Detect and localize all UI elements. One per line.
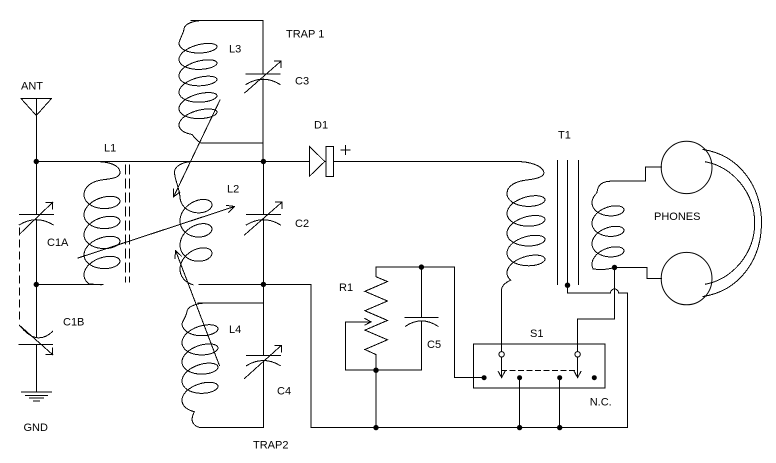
switch S1 contact 3	[557, 375, 562, 380]
wire bottom rail	[311, 427, 628, 429]
label C1B	[63, 317, 84, 329]
capacitor C1B	[19, 325, 53, 354]
node rail below R1	[373, 425, 378, 430]
transformer T1 secondary	[592, 181, 624, 269]
inductor L1	[84, 162, 120, 285]
node C1 junction	[34, 282, 39, 287]
switch S1 contact 1	[482, 375, 487, 380]
node L2/C2 bottom junction	[261, 282, 266, 287]
node rail below contact2	[517, 425, 522, 430]
wire junction to C1B arc	[35, 285, 37, 338]
svg-text:C3: C3	[295, 76, 309, 88]
svg-text:PHONES: PHONES	[654, 211, 700, 223]
wire secondary junction to S1	[578, 268, 615, 352]
node R1 bottom junction	[373, 368, 378, 373]
wire D1 to T1	[334, 161, 520, 163]
L1 adjustable core	[126, 165, 130, 282]
svg-text:C1A: C1A	[47, 237, 69, 249]
wire R1/C5 top	[376, 266, 454, 268]
wire secondary bottom to phones	[615, 268, 662, 279]
wire C1A to junction	[35, 220, 37, 285]
label C2	[295, 218, 309, 230]
L4 slug-tuning arrow	[175, 251, 220, 366]
svg-text:TRAP 1: TRAP 1	[286, 29, 324, 41]
wire TRAP1 right side lower	[262, 79, 264, 143]
node R1/C5 top junction	[419, 264, 424, 269]
svg-text:L1: L1	[104, 143, 116, 155]
wire R1 bottom to rail	[375, 370, 377, 427]
svg-text:C5: C5	[427, 339, 441, 351]
switch S1 right pole	[575, 352, 580, 357]
wire TRAP2 right side lower	[262, 361, 264, 428]
svg-text:C2: C2	[295, 218, 309, 230]
inductor L2	[175, 162, 213, 285]
capacitor C3	[245, 61, 281, 93]
svg-text:TRAP2: TRAP2	[253, 440, 288, 452]
phones headband	[703, 150, 762, 297]
node secondary bottom junction	[612, 265, 617, 270]
wire S1 contact2 to rail	[519, 378, 521, 428]
svg-text:N.C.: N.C.	[590, 397, 612, 409]
svg-text:GND: GND	[24, 422, 49, 434]
R1 wiper arm	[346, 319, 422, 371]
wire C2 top lead	[262, 162, 264, 215]
switch S1 left pole	[499, 352, 504, 357]
L2 coupling arrow	[78, 205, 235, 258]
wire TRAP2 box bottom	[200, 427, 263, 429]
diode D1 triangle	[310, 146, 325, 176]
svg-text:S1: S1	[530, 328, 543, 340]
phones top earpiece	[661, 141, 712, 193]
svg-text:L4: L4	[229, 324, 241, 336]
wire secondary top to phones	[610, 167, 662, 181]
label D1 plus	[341, 146, 350, 155]
label T1	[558, 130, 571, 142]
svg-text:C4: C4	[277, 386, 291, 398]
wire TRAP2 right side upper	[262, 303, 264, 356]
capacitor C2	[245, 202, 282, 235]
label L4	[229, 324, 241, 336]
node L2/C2 top junction	[261, 159, 266, 164]
L3 slug-tuning arrow	[173, 100, 220, 197]
gang dashed link C1A-C1B	[18, 228, 20, 324]
wire L1 top feed	[36, 161, 309, 163]
wire L2 bottom rail	[199, 283, 311, 285]
switch S1 left pole arrow	[498, 357, 505, 378]
transformer T1 core	[558, 161, 579, 285]
svg-text:C1B: C1B	[63, 317, 84, 329]
label D1	[314, 120, 328, 132]
antenna label	[21, 81, 43, 93]
svg-text:L3: L3	[229, 44, 241, 56]
wire core tap to rail (with hop)	[568, 285, 628, 427]
label TRAP2	[253, 440, 288, 452]
label C1A	[47, 237, 69, 249]
wire TRAP2 stub	[262, 284, 264, 302]
wire junction to L1 bottom	[36, 284, 103, 286]
wire TRAP1 box top	[191, 19, 263, 21]
switch S1 right pole arrow	[574, 357, 581, 378]
inductor L4	[182, 303, 218, 428]
capacitor C1A	[19, 202, 53, 234]
diode D1 cathode bar	[326, 147, 334, 177]
svg-text:L2: L2	[227, 184, 239, 196]
node T1 core tap	[565, 283, 570, 288]
capacitor C4	[245, 345, 282, 378]
inductor L3	[179, 20, 217, 143]
resistor R1 (potentiometer)	[365, 267, 388, 370]
switch S1 contact 4 (N.C.)	[592, 375, 597, 380]
wire TRAP1 box bottom	[201, 142, 263, 144]
label L3	[229, 44, 241, 56]
label C3	[295, 76, 309, 88]
transformer T1 primary	[501, 162, 545, 352]
wire TRAP1 right side upper	[262, 20, 264, 74]
switch S1 box	[474, 344, 605, 388]
label C4	[277, 386, 291, 398]
label L1	[104, 143, 116, 155]
label L2	[227, 184, 239, 196]
label R1	[339, 282, 353, 294]
phones bottom earpiece	[661, 252, 712, 304]
wire trap rail drop	[310, 284, 312, 427]
capacitor C5	[405, 267, 438, 370]
wire C1B to ground	[35, 344, 37, 392]
wire top to S1 drop	[454, 267, 484, 378]
label C5	[427, 339, 441, 351]
node rail below contact3	[557, 425, 562, 430]
label N.C.	[590, 397, 612, 409]
svg-text:D1: D1	[314, 120, 328, 132]
label S1	[530, 328, 543, 340]
wire antenna lead	[35, 99, 37, 215]
antenna ANT symbol	[21, 99, 52, 116]
label TRAP 1	[286, 29, 324, 41]
svg-text:R1: R1	[339, 282, 353, 294]
node antenna-L1 junction	[34, 159, 39, 164]
wire S1 contact3 to rail	[559, 378, 561, 428]
wire TRAP1 stub to main wire	[262, 143, 264, 162]
wire C2 bottom lead	[262, 220, 264, 285]
ground	[22, 392, 52, 401]
switch S1 gang dashed link	[502, 370, 578, 372]
switch S1 contact 2	[517, 375, 522, 380]
label PHONES	[654, 211, 700, 223]
wire TRAP2 box top	[198, 302, 263, 304]
label GND	[24, 422, 49, 434]
svg-text:T1: T1	[558, 130, 571, 142]
svg-text:ANT: ANT	[21, 81, 43, 93]
